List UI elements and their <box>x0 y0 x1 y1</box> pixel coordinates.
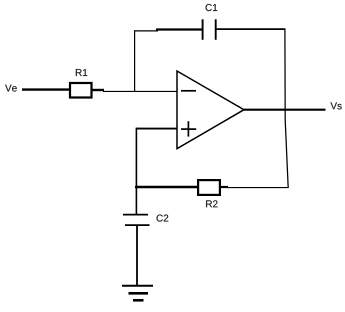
wire output to Vs <box>244 109 326 111</box>
op-amp plus pin mark <box>181 128 196 130</box>
label R1 <box>76 69 87 76</box>
wire C2 to ground <box>136 226 138 286</box>
wire right vertical branch <box>285 29 288 188</box>
wire node to C2 <box>135 186 137 215</box>
wire Ve to R1 <box>22 88 70 90</box>
resistor R1 <box>70 83 92 98</box>
label C2 <box>157 215 169 222</box>
op-amp U1 <box>177 71 244 149</box>
capacitor C2 <box>123 214 148 216</box>
op-amp minus pin mark <box>181 90 196 92</box>
wire junction vertical (node A up to C1 branch) <box>134 30 136 91</box>
capacitor C1 <box>202 19 204 40</box>
resistor R2 <box>198 180 220 195</box>
node Vs (output label) <box>330 102 341 109</box>
label C1 <box>206 4 218 11</box>
ground <box>122 285 153 287</box>
wire C1 to right branch <box>217 28 286 30</box>
wire non-inverting input <box>136 128 177 130</box>
wire R1 to inverting input <box>91 89 104 91</box>
label R2 <box>206 200 217 207</box>
wire left vertical (plus input down to R2/C2 node) <box>135 128 137 188</box>
wire node to R2 <box>135 186 199 189</box>
node Ve (input label) <box>5 85 17 92</box>
wire top feedback left <box>134 30 158 32</box>
wire R2 to right branch <box>220 186 228 188</box>
